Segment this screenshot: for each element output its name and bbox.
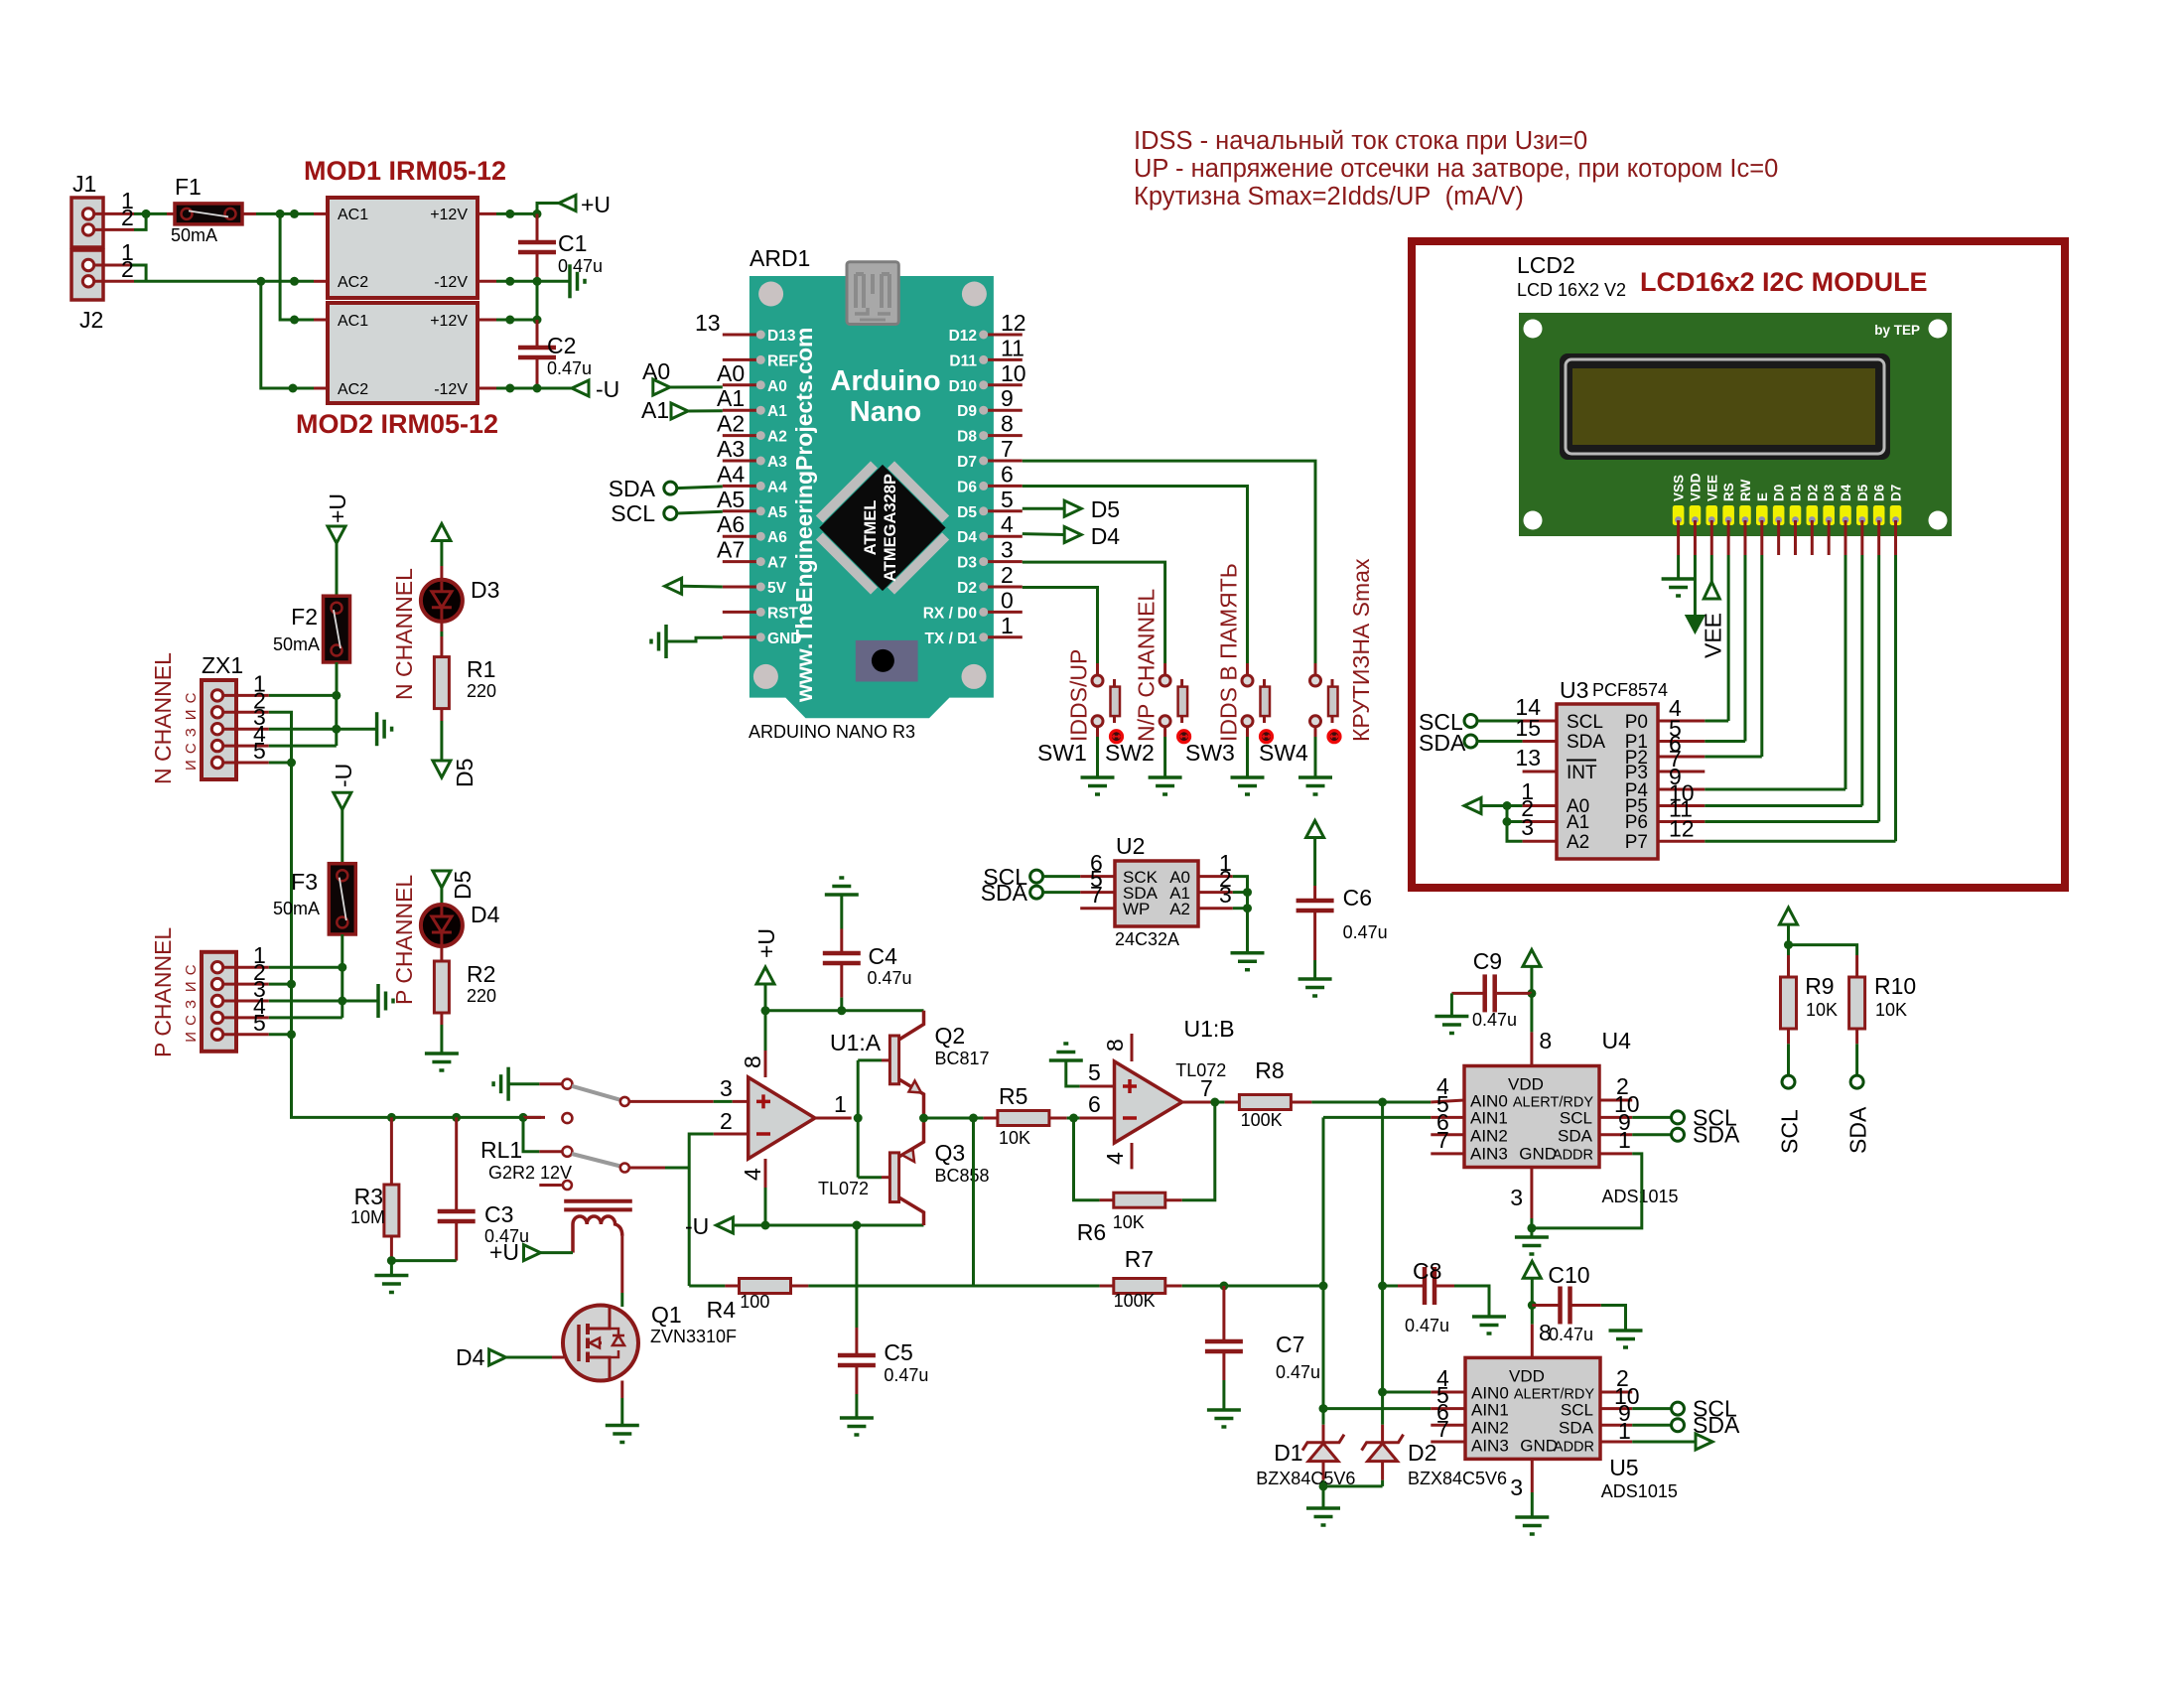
svg-text:F3: F3 [291,869,318,895]
node bus C3 [452,1113,461,1122]
node output [854,1114,863,1123]
svg-text:8: 8 [1102,1039,1128,1052]
ZX1 pin2 wire [269,712,292,1117]
switch SW1 [1096,663,1099,675]
U3 address wires [1507,806,1523,842]
svg-text:SDA: SDA [1845,1106,1871,1154]
svg-text:R1: R1 [467,656,495,682]
svg-text:3: 3 [720,1075,733,1101]
ZX1 pin4 wire [269,745,337,748]
svg-text:ADS1015: ADS1015 [1602,1187,1679,1206]
wire D4 to R2 [440,946,443,961]
node MOD2 +12V b [533,316,542,325]
node C10 [1528,1301,1537,1310]
rail +U wire [765,1009,924,1012]
svg-text:A0: A0 [767,378,787,395]
arduino pin A0 [723,383,757,386]
terminal SCL [664,507,677,520]
terminal ground arrow U3 [1464,798,1481,814]
wire AC2 branch to MOD2 AC2 [261,281,314,388]
U2 WP stub [1080,907,1115,910]
svg-text:D7: D7 [1889,485,1904,501]
svg-text:SDA: SDA [1693,1412,1740,1438]
node rail C4 [837,1006,846,1015]
svg-text:3: 3 [1510,1185,1523,1210]
wire D6 to SW3 [1023,487,1248,664]
wire E vertical [1760,555,1763,757]
ground U5 [1515,1515,1549,1519]
arduino pin D4 [988,535,1023,538]
U5 AIN0 wire [1383,1391,1432,1394]
svg-text:IDDS В ПАМЯТЬ: IDDS В ПАМЯТЬ [1216,563,1242,742]
node AIN1 U5 [1319,1404,1328,1413]
ground GND pin [666,637,723,641]
svg-text:220: 220 [467,681,496,701]
resistor R8 [1215,1101,1225,1104]
lcd pin stub D1 [1794,520,1797,555]
svg-text:ATMEGA328P: ATMEGA328P [882,474,899,582]
svg-text:R3: R3 [354,1184,383,1209]
lcd pcb LCD2 [1519,313,1952,536]
arduino mounting pads [758,282,783,307]
capacitor C1 [536,213,539,240]
eeprom U2 24C32A [1115,861,1198,926]
svg-text:SCL: SCL [1567,712,1603,733]
node P pin5 [287,1030,296,1039]
relay RL1 bottom pole [523,1117,539,1151]
svg-text:SDA: SDA [1419,730,1466,756]
wire J1 to F1 [146,212,167,215]
svg-text:7: 7 [1200,1075,1213,1101]
resistor R3 [390,1117,393,1185]
svg-text:100K: 100K [1241,1110,1283,1130]
usb connector [847,262,898,325]
svg-text:D4: D4 [456,1344,485,1370]
power arrow N led [433,524,451,541]
svg-text:A5: A5 [767,504,787,521]
wire RS vertical [1727,555,1730,721]
power arrow R9 R10 [1780,908,1798,924]
svg-text:D5: D5 [450,871,476,900]
svg-text:1: 1 [834,1091,847,1117]
wire D1 D2 gnd [1323,1484,1383,1487]
U2 A0 wire [1198,875,1233,878]
wire vertical out to R7 row [972,1118,975,1286]
arduino pin D12 [988,334,1023,337]
svg-text:ZVN3310F: ZVN3310F [650,1327,737,1346]
ground SW2 [1149,775,1182,779]
J1 pin 2 wire [94,228,134,231]
svg-text:-12V: -12V [434,274,468,291]
P pin 5 stub [223,1033,269,1036]
svg-text:J2: J2 [79,307,103,333]
switch SW3 [1246,663,1249,675]
svg-text:D2: D2 [1805,485,1820,501]
svg-text:D10: D10 [949,378,977,395]
U4 AIN3 stub [1431,1152,1464,1155]
arduino pin RX / D0 [988,611,1023,614]
svg-text:С: С [183,964,200,975]
arduino pin D7 [988,460,1023,463]
wire VSS to ground [1677,555,1680,578]
svg-text:A7: A7 [767,555,787,572]
svg-text:5V: 5V [767,580,787,597]
svg-text:С: С [183,743,200,754]
U3 pin P4 wire [1658,788,1705,791]
capacitor C6 [1313,886,1316,899]
U1B output wire [1182,1101,1215,1104]
svg-text:VDD: VDD [1509,1366,1545,1385]
resistor R10 [1855,955,1858,977]
wire out to R5 [924,1117,974,1120]
svg-text:Q3: Q3 [935,1140,966,1166]
capacitor C3 [455,1117,458,1209]
svg-text:C2: C2 [547,333,576,358]
terminal D4 [1023,532,1065,536]
svg-text:0.47u: 0.47u [547,358,592,378]
svg-text:GND: GND [767,631,801,647]
svg-text:D3: D3 [1822,484,1837,501]
svg-text:TX / D1: TX / D1 [924,631,977,647]
U4 AIN1 wire [1323,1116,1431,1119]
svg-text:A0: A0 [642,358,670,384]
wire GND to MOD2 +12V [536,281,539,320]
capacitor C7 [1222,1286,1225,1339]
svg-text:ADS1015: ADS1015 [1601,1481,1678,1501]
svg-text:D11: D11 [949,352,977,369]
node -U C5 [852,1221,861,1230]
svg-text:5: 5 [1001,487,1014,512]
svg-text:AIN2: AIN2 [1471,1418,1509,1437]
wire SW2 to ground [1163,727,1166,737]
ground P conn [376,984,380,1018]
terminal SDA [664,482,677,494]
svg-text:TL072: TL072 [818,1179,869,1198]
U5 AIN1 wire [1322,1407,1431,1410]
svg-text:-U: -U [331,764,356,787]
U3 pin P0 wire [1658,720,1705,723]
P pin4 wire [269,1016,342,1019]
node R9 [1784,940,1793,949]
capacitor C2 [536,320,539,346]
svg-text:D3: D3 [471,577,499,603]
node ZX1 pin5 [287,759,296,768]
switch SW2 [1163,663,1166,675]
U5 SCL wire [1600,1407,1632,1410]
fuse F1 [175,204,242,224]
ground C4 top [825,893,859,897]
svg-text:0.47u: 0.47u [1343,922,1388,942]
svg-text:3: 3 [1001,537,1014,563]
led D4 [421,905,463,946]
ZX1 pin 4 stub [223,745,269,748]
svg-text:A3: A3 [767,454,787,471]
svg-text:D5: D5 [1091,496,1120,522]
node -12V b [533,277,542,286]
ground SW4 [1298,775,1332,779]
wire to transistor bases [857,1060,860,1178]
U5 ALERT stub [1600,1391,1632,1394]
svg-text:SCL: SCL [611,500,655,526]
svg-text:A1: A1 [717,385,745,411]
node D1 gnd [1319,1481,1328,1490]
svg-text:AIN3: AIN3 [1471,1436,1509,1455]
lcd pin stub VSS [1677,520,1680,555]
svg-text:F1: F1 [175,174,202,200]
relay lever 1 [572,1086,620,1100]
svg-text:5: 5 [253,738,266,764]
node bus R3 [387,1113,396,1122]
node J1 junction [142,210,151,218]
svg-text:И: И [183,760,200,771]
svg-text:D3: D3 [957,555,977,572]
svg-text:VEE: VEE [1705,475,1719,501]
wire D4 vertical [1844,555,1847,789]
svg-text:RS: RS [1721,483,1736,501]
terminal D5 [1023,507,1065,510]
lcd pin stub D6 [1877,520,1880,555]
resistor R4 [689,1285,725,1288]
wire D5 vertical [1860,555,1863,806]
svg-text:LCD2: LCD2 [1517,252,1575,278]
zener D2 BZX84C5V6 [1381,1392,1384,1425]
ground pin5 [1049,1058,1083,1062]
svg-text:PCF8574: PCF8574 [1592,680,1668,700]
node +12V a [505,210,514,218]
wire R3 to ground [390,1236,393,1261]
svg-text:0.47u: 0.47u [558,256,603,276]
svg-text:A1: A1 [1567,812,1589,833]
svg-text:50mA: 50mA [273,899,320,918]
svg-text:UP - напряжение отсечки на зат: UP - напряжение отсечки на затворе, при … [1134,155,1778,183]
svg-text:AIN1: AIN1 [1470,1109,1508,1128]
resistor R2 [434,961,449,1013]
node P pin1 [338,963,346,972]
svg-text:2: 2 [121,205,134,230]
U3 pin P1 wire [1658,740,1705,743]
node AC1 b [290,210,299,218]
U3 pin P6 wire [1658,820,1705,823]
lcd pin stub VEE [1710,520,1713,555]
svg-text:12: 12 [1669,815,1695,841]
svg-text:Nano: Nano [850,396,922,428]
node A0 U3 [1503,801,1512,810]
wire MOD1 +12V [478,212,496,215]
svg-text:by TEP: by TEP [1874,323,1920,338]
svg-text:Q1: Q1 [651,1302,682,1328]
svg-text:A2: A2 [767,429,787,446]
svg-text:SCL: SCL [1777,1109,1803,1154]
node R7 ain1 [1319,1282,1328,1291]
svg-text:A4: A4 [717,461,745,487]
U5 AIN3 stub [1431,1441,1465,1444]
U5 SDA wire [1600,1424,1632,1427]
relay lever 2 [572,1154,620,1167]
node +12V b [533,210,542,218]
wire D7 to SW4 [1023,461,1315,663]
arduino pin A5 [723,509,757,512]
wire C3 to R3 node [391,1259,456,1262]
svg-text:3: 3 [1521,814,1534,840]
svg-text:C9: C9 [1473,948,1502,974]
svg-text:100: 100 [740,1292,769,1312]
node GND U4 [1527,1223,1536,1232]
svg-text:ADDR: ADDR [1553,1148,1593,1164]
power module MOD1 IRM05-12 [328,198,478,298]
svg-text:0.47u: 0.47u [1549,1325,1593,1344]
svg-text:З: З [183,728,200,737]
node -U pin4 [761,1221,770,1230]
power arrow C6 [1306,821,1324,838]
node P pin2 [287,980,296,989]
wire coil to Q1 [620,1236,623,1293]
wire RW vertical [1743,555,1746,742]
svg-text:D2: D2 [1408,1440,1436,1466]
wire SW1 to ground [1096,727,1099,737]
svg-text:GND: GND [1520,1436,1558,1455]
ground U2 [1231,951,1265,955]
node MOD2 +12V a [505,316,514,325]
svg-text:RL1: RL1 [480,1137,522,1163]
node AC2 b [290,277,299,286]
P pin 3 stub [223,1000,269,1003]
node P pin3 [338,997,346,1006]
node MOD2 AC1 [290,316,299,325]
terminal SDA LCD [1464,735,1477,748]
ZX1 pin5 wire [269,762,292,765]
capacitor C9 [1523,949,1541,966]
node MOD2 -12V a [505,384,514,393]
svg-text:D7: D7 [957,454,977,471]
svg-text:2: 2 [720,1108,733,1134]
capacitor C8 [1383,1285,1398,1288]
svg-text:1: 1 [1618,1418,1631,1444]
wire R2 to ground [440,1013,443,1025]
U1B pin5 wire [1080,1085,1115,1088]
ground D1 D2 [1322,1486,1325,1507]
connector J2 [71,250,103,300]
U5 AIN2 stub [1431,1424,1465,1427]
svg-text:220: 220 [467,986,496,1006]
svg-text:SDA: SDA [609,476,656,501]
svg-text:D0: D0 [1772,485,1787,501]
svg-text:R8: R8 [1255,1057,1284,1083]
ground VSS [1662,577,1696,581]
opamp U1:A [764,1011,767,1051]
arduino pin D2 [988,586,1023,589]
adc U5 ADS1015 [1465,1357,1600,1459]
wire MOD2 +12V [478,319,496,322]
svg-text:+U: +U [581,192,611,217]
svg-text:C7: C7 [1276,1332,1304,1357]
ground C10 [1609,1329,1643,1333]
svg-text:R9: R9 [1805,973,1834,999]
svg-text:С: С [183,1015,200,1026]
wire D6 vertical [1877,555,1880,822]
svg-text:SCL: SCL [1560,1109,1592,1128]
svg-text:З: З [183,1000,200,1009]
opamp U1:B [1115,1061,1182,1143]
svg-text:A3: A3 [717,436,745,462]
svg-text:A0: A0 [717,360,745,386]
svg-text:ZX1: ZX1 [202,652,243,678]
svg-text:+U: +U [325,493,350,523]
svg-text:-U: -U [596,376,619,402]
terminal SCL U2 [1030,870,1043,883]
resistor R7 [974,1285,1100,1288]
P pin 1 stub [223,966,269,969]
opamp output wire [815,1117,852,1120]
node C9 [1527,989,1536,998]
svg-text:LCD 16X2 V2: LCD 16X2 V2 [1517,280,1626,300]
ground R2 [425,1052,459,1055]
svg-text:BZX84C5V6: BZX84C5V6 [1408,1469,1507,1488]
wire to MOD1 AC2 [261,280,314,283]
ground Q1 [606,1424,639,1428]
U5 VDD pin 8 [1531,1325,1534,1358]
node ZX1 pin3 [332,725,341,734]
svg-text:J1: J1 [72,171,96,197]
node rail pin8 [761,1006,770,1015]
wire VEE [1710,555,1713,582]
svg-text:C8: C8 [1413,1258,1441,1284]
svg-text:0.47u: 0.47u [884,1365,928,1385]
svg-text:1: 1 [1001,613,1014,638]
feedback R6 [1074,1118,1100,1200]
isp connector [856,640,918,682]
svg-text:RST: RST [767,605,799,622]
wire VDD power [1694,555,1697,616]
terminal VEE up arrow [1704,582,1719,599]
ZX1 pin1 wire [269,694,337,697]
LCD module outer box [1412,241,2065,888]
svg-text:SDA: SDA [1558,1127,1593,1146]
svg-text:AIN1: AIN1 [1471,1400,1509,1419]
svg-text:U5: U5 [1609,1455,1638,1480]
svg-text:VDD: VDD [1508,1075,1544,1094]
terminal A0 [653,379,670,395]
ground SW3 [1231,775,1265,779]
svg-text:D5: D5 [957,504,977,521]
svg-text:+12V: +12V [430,207,468,223]
lcd pin stub D2 [1811,520,1814,555]
opamp pin4 wire [764,1159,767,1188]
svg-text:D6: D6 [957,479,977,495]
node A1 [1243,888,1252,897]
svg-text:0: 0 [1001,587,1014,613]
svg-text:-U: -U [685,1213,709,1239]
node R7 C7 [1219,1282,1228,1291]
svg-text:A5: A5 [717,487,745,512]
power arrow VDD down [1686,616,1704,632]
mosfet Q1 ZVN3310F [563,1306,638,1381]
svg-text:И: И [183,1032,200,1043]
svg-text:A2: A2 [717,411,745,437]
node R3 bottom [387,1256,396,1265]
svg-text:9: 9 [1001,385,1014,411]
svg-text:SDA: SDA [1567,732,1605,753]
svg-text:VSS: VSS [1672,475,1687,501]
P pin 2 stub [223,983,269,986]
svg-text:4: 4 [740,1168,765,1181]
svg-text:U3: U3 [1560,677,1588,703]
arduino pin GND [723,635,757,638]
svg-text:Q2: Q2 [935,1023,966,1049]
svg-text:SW4: SW4 [1259,740,1308,766]
svg-text:VDD: VDD [1688,473,1703,501]
svg-text:10K: 10K [1113,1212,1145,1232]
terminal A1 [671,403,688,419]
